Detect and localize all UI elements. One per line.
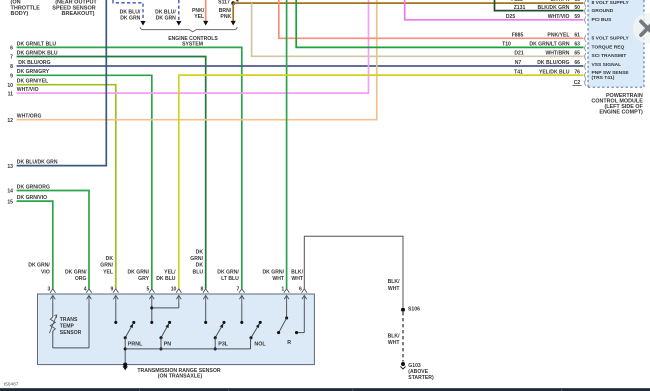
svg-text:YEL: YEL bbox=[194, 14, 204, 20]
svg-text:8: 8 bbox=[200, 286, 203, 292]
wire: dashed DK BLU/DK GRN arrow 1 bbox=[113, 0, 146, 26]
svg-text:DK BLU/ORG: DK BLU/ORG bbox=[18, 60, 50, 66]
svg-text:9: 9 bbox=[10, 74, 13, 80]
svg-text:TORQUE REQ: TORQUE REQ bbox=[592, 44, 625, 50]
connector C2 label bbox=[573, 80, 582, 86]
svg-text:SENSOR: SENSOR bbox=[60, 330, 82, 336]
svg-text:11: 11 bbox=[8, 91, 14, 97]
svg-text:(TRS T41): (TRS T41) bbox=[592, 75, 615, 81]
svg-text:DK GRN/LT BLU: DK GRN/LT BLU bbox=[17, 41, 57, 47]
svg-text:1: 1 bbox=[281, 286, 284, 292]
switch NOL bbox=[240, 304, 266, 349]
svg-text:GRN/: GRN/ bbox=[190, 256, 203, 262]
wire row 10 DK GRN/YEL to TRS pin 9 bbox=[17, 85, 116, 289]
svg-text:STARTER): STARTER) bbox=[408, 375, 434, 381]
svg-text:t50487: t50487 bbox=[4, 381, 19, 387]
svg-text:DK: DK bbox=[196, 263, 204, 269]
svg-text:61: 61 bbox=[574, 33, 580, 39]
node pin 15 label bbox=[7, 195, 47, 205]
svg-text:DK GRN/GRY: DK GRN/GRY bbox=[17, 69, 50, 75]
svg-text:BLK/: BLK/ bbox=[388, 334, 400, 340]
svg-text:PNK: PNK bbox=[220, 14, 231, 20]
wire row 12 WHT/ORG up to top bbox=[17, 0, 377, 120]
svg-text:NOL: NOL bbox=[254, 342, 266, 348]
ground G103 bbox=[400, 362, 434, 381]
svg-text:S106: S106 bbox=[408, 306, 420, 312]
splice S106 bbox=[401, 306, 420, 312]
TRS pin 5 bbox=[127, 270, 154, 304]
svg-text:DK GRN/LT GRN: DK GRN/LT GRN bbox=[529, 42, 569, 48]
svg-text:DK GRN: DK GRN bbox=[120, 15, 140, 21]
node pin 10 label bbox=[7, 79, 48, 89]
wire row 7 DK GRN/DK BLU to TRS pin 8 bbox=[17, 57, 206, 289]
svg-text:GROUND: GROUND bbox=[592, 8, 614, 14]
svg-text:BREAKOUT): BREAKOUT) bbox=[62, 11, 95, 17]
svg-text:12: 12 bbox=[7, 118, 13, 124]
svg-text:WHT: WHT bbox=[272, 276, 284, 282]
svg-text:YEL: YEL bbox=[103, 270, 113, 276]
svg-text:ENGINE COMPT): ENGINE COMPT) bbox=[599, 110, 643, 116]
wire Z131 BLK/DK GRN to PCM GROUND bbox=[495, 0, 584, 11]
wire: PNK/YEL arrow bbox=[192, 0, 208, 26]
TRS pin 7 bbox=[217, 270, 244, 304]
TRS pin 4 bbox=[65, 270, 92, 304]
svg-text:DK GRN/DK BLU: DK GRN/DK BLU bbox=[17, 50, 58, 56]
svg-text:VIO: VIO bbox=[41, 270, 50, 276]
svg-text:DK GRN/ORG: DK GRN/ORG bbox=[17, 184, 50, 190]
node pin 14 label bbox=[7, 184, 50, 194]
svg-text:50: 50 bbox=[574, 5, 580, 11]
svg-text:SCI TRANSMIT: SCI TRANSMIT bbox=[592, 53, 627, 59]
wire S117 BRN to PCM 8 VOLT SUPPLY bbox=[233, 2, 583, 4]
footer bar bbox=[0, 388, 650, 391]
TRS pin 9 bbox=[100, 256, 118, 304]
svg-text:10: 10 bbox=[7, 83, 13, 89]
svg-text:WHT/BRN: WHT/BRN bbox=[545, 51, 569, 57]
svg-text:F885: F885 bbox=[511, 0, 523, 3]
node pin 11 label bbox=[8, 87, 39, 97]
svg-text:15: 15 bbox=[7, 199, 13, 205]
brace: engine controls system bbox=[140, 27, 237, 48]
svg-text:GRN/: GRN/ bbox=[100, 263, 113, 269]
svg-text:P3L: P3L bbox=[218, 342, 228, 348]
svg-text:TRANS: TRANS bbox=[60, 317, 78, 323]
wire F885 PNK/YEL to PCM 5 VOLT SUPPLY bbox=[279, 0, 584, 38]
svg-text:DK BLU/ORG: DK BLU/ORG bbox=[537, 60, 569, 66]
svg-text:VSS SIGNAL: VSS SIGNAL bbox=[592, 62, 622, 68]
svg-text:65: 65 bbox=[574, 51, 580, 57]
wire T10 DK GRN/LT GRN to PCM TORQUE REQ bbox=[296, 0, 583, 47]
switch P3L bbox=[204, 304, 229, 351]
wire BLK/WHT from TRS pin 6 to S106 bbox=[304, 236, 403, 308]
TRS pin 10 bbox=[156, 270, 181, 304]
svg-text:6: 6 bbox=[299, 286, 302, 292]
node pin 9 label bbox=[10, 69, 50, 79]
svg-text:WHT/VIO: WHT/VIO bbox=[17, 87, 39, 93]
note: on throttle body bbox=[11, 0, 41, 17]
svg-text:14: 14 bbox=[7, 189, 13, 195]
wire row 15 DK GRN/VIO to TRS pin 3 bbox=[17, 201, 53, 289]
switch PN bbox=[150, 304, 179, 351]
svg-text:PN: PN bbox=[164, 342, 172, 348]
wire T41 YEL/DK BLU from PCM PNP SW SENSE to TRS pin 10 bbox=[179, 75, 584, 289]
wire row 9 DK GRN/GRY to TRS pin 5 bbox=[17, 75, 152, 288]
wire D25 WHT/VIO to PCM PCI BUS bbox=[405, 0, 584, 20]
svg-text:6: 6 bbox=[10, 46, 13, 52]
svg-text:PCI BUS: PCI BUS bbox=[592, 17, 613, 23]
svg-text:GRY/PK: GRY/PK bbox=[550, 0, 570, 3]
svg-text:63: 63 bbox=[574, 42, 580, 48]
svg-text:DK GRN/: DK GRN/ bbox=[65, 270, 87, 276]
TRS pin 1 bbox=[262, 270, 289, 304]
PCM internal labels bbox=[592, 0, 630, 81]
svg-text:66: 66 bbox=[574, 60, 580, 66]
svg-text:WHT: WHT bbox=[388, 340, 400, 346]
svg-text:LT BLU: LT BLU bbox=[221, 276, 239, 282]
svg-text:YEL/: YEL/ bbox=[164, 270, 176, 276]
svg-text:7: 7 bbox=[237, 286, 240, 292]
PCM connector entries bbox=[584, 1, 587, 87]
TRS pin 8 bbox=[190, 249, 208, 303]
PCM pin labels bbox=[502, 0, 580, 75]
svg-text:DK: DK bbox=[196, 249, 204, 255]
svg-text:DK GRN/: DK GRN/ bbox=[217, 270, 239, 276]
svg-text:DK GRN/: DK GRN/ bbox=[262, 270, 284, 276]
wire: switch common rail bbox=[125, 348, 250, 350]
svg-text:BLU: BLU bbox=[193, 270, 204, 276]
footer bar dividers bbox=[139, 388, 140, 391]
TRS caption bbox=[137, 368, 221, 379]
svg-text:ORG: ORG bbox=[75, 276, 87, 282]
svg-text:YEL/DK BLU: YEL/DK BLU bbox=[539, 69, 570, 75]
svg-text:7: 7 bbox=[10, 55, 13, 61]
svg-text:68: 68 bbox=[574, 0, 580, 3]
svg-text:DK GRN/: DK GRN/ bbox=[28, 263, 50, 269]
svg-text:Z131: Z131 bbox=[514, 5, 526, 11]
svg-text:DK: DK bbox=[106, 256, 114, 262]
switch PRNL bbox=[114, 304, 143, 371]
svg-text:D25: D25 bbox=[506, 14, 516, 20]
svg-text:R: R bbox=[287, 340, 291, 346]
svg-text:T41: T41 bbox=[514, 69, 523, 75]
svg-text:S117: S117 bbox=[218, 0, 230, 6]
TRS pin 6 bbox=[291, 270, 307, 304]
svg-text:8 VOLT SUPPLY: 8 VOLT SUPPLY bbox=[592, 0, 630, 6]
module: transmission range sensor box bbox=[38, 294, 315, 365]
node pin 7 label bbox=[10, 50, 58, 60]
svg-text:PNK/YEL: PNK/YEL bbox=[547, 33, 569, 39]
node pin 13 label bbox=[7, 160, 58, 170]
svg-text:BODY): BODY) bbox=[11, 11, 29, 17]
svg-text:D21: D21 bbox=[514, 51, 524, 57]
svg-text:8: 8 bbox=[10, 64, 13, 70]
node pin 12 label bbox=[7, 114, 41, 124]
svg-text:(ON TRANSAXLE): (ON TRANSAXLE) bbox=[158, 373, 203, 379]
svg-text:DK GRN/VIO: DK GRN/VIO bbox=[17, 195, 47, 201]
trans temp sensor bbox=[49, 304, 89, 348]
svg-text:WHT: WHT bbox=[388, 286, 400, 292]
PCM caption bbox=[591, 93, 643, 116]
note: near output speed sensor breakout bbox=[52, 0, 97, 17]
splice S117 bbox=[218, 0, 238, 6]
wire row 14 DK GRN/ORG to TRS pin 4 bbox=[17, 191, 89, 289]
wire: BRN/PNK arrow from S117 bbox=[219, 3, 236, 25]
svg-text:3: 3 bbox=[48, 286, 51, 292]
svg-text:DK GRN/YEL: DK GRN/YEL bbox=[17, 79, 48, 85]
svg-text:DK GRN/: DK GRN/ bbox=[127, 270, 149, 276]
node pin 6 label bbox=[10, 41, 56, 51]
wire row 13 DK BLU/DK GRN up to top bbox=[17, 0, 107, 166]
svg-text:N7: N7 bbox=[515, 60, 522, 66]
svg-text:BLK/DK GRN: BLK/DK GRN bbox=[538, 5, 570, 11]
wire BLK/WHT dashed S106 to G103 bbox=[388, 312, 403, 362]
svg-text:WHT/VIO: WHT/VIO bbox=[548, 14, 570, 20]
svg-text:DK GRN: DK GRN bbox=[156, 15, 176, 21]
svg-text:9: 9 bbox=[111, 286, 114, 292]
module: powertrain control module bbox=[588, 0, 644, 87]
wire row 8 DK BLU/ORG to PCM VSS SIGNAL (N7) bbox=[17, 65, 584, 67]
svg-text:GRY: GRY bbox=[138, 276, 149, 282]
wire row 6 DK GRN/LT BLU to TRS pin 7 bbox=[17, 47, 242, 288]
svg-text:BLK/: BLK/ bbox=[291, 270, 303, 276]
svg-text:76: 76 bbox=[574, 69, 580, 75]
svg-text:WHT/ORG: WHT/ORG bbox=[17, 114, 42, 120]
svg-text:PRNL: PRNL bbox=[128, 342, 143, 348]
wire DK GRN/WHT from top to TRS pin 1 bbox=[286, 0, 288, 289]
wire row 11 WHT/VIO up to top bbox=[17, 0, 369, 93]
svg-text:TEMP: TEMP bbox=[60, 324, 75, 330]
svg-text:T10: T10 bbox=[502, 42, 511, 48]
wire D21 WHT/BRN to PCM SCI TRANSMIT bbox=[252, 3, 584, 56]
svg-text:DK BLU/DK GRN: DK BLU/DK GRN bbox=[17, 160, 58, 166]
svg-text:13: 13 bbox=[7, 164, 13, 170]
svg-text:F885: F885 bbox=[512, 33, 524, 39]
svg-text:WHT: WHT bbox=[291, 276, 303, 282]
svg-text:5: 5 bbox=[147, 286, 150, 292]
svg-text:10: 10 bbox=[171, 286, 177, 292]
wire: dashed DK BLU/DK GRN arrow 2 bbox=[155, 0, 181, 26]
svg-text:5 VOLT SUPPLY: 5 VOLT SUPPLY bbox=[592, 36, 630, 42]
node pin 8 label bbox=[10, 60, 50, 70]
ui close button bbox=[633, 13, 650, 44]
TRS pin 3 bbox=[28, 263, 55, 304]
svg-text:59: 59 bbox=[574, 14, 580, 20]
switch R bbox=[277, 304, 304, 347]
svg-text:BLK/: BLK/ bbox=[388, 279, 400, 285]
svg-text:4: 4 bbox=[84, 286, 87, 292]
svg-text:DK BLU: DK BLU bbox=[156, 276, 176, 282]
